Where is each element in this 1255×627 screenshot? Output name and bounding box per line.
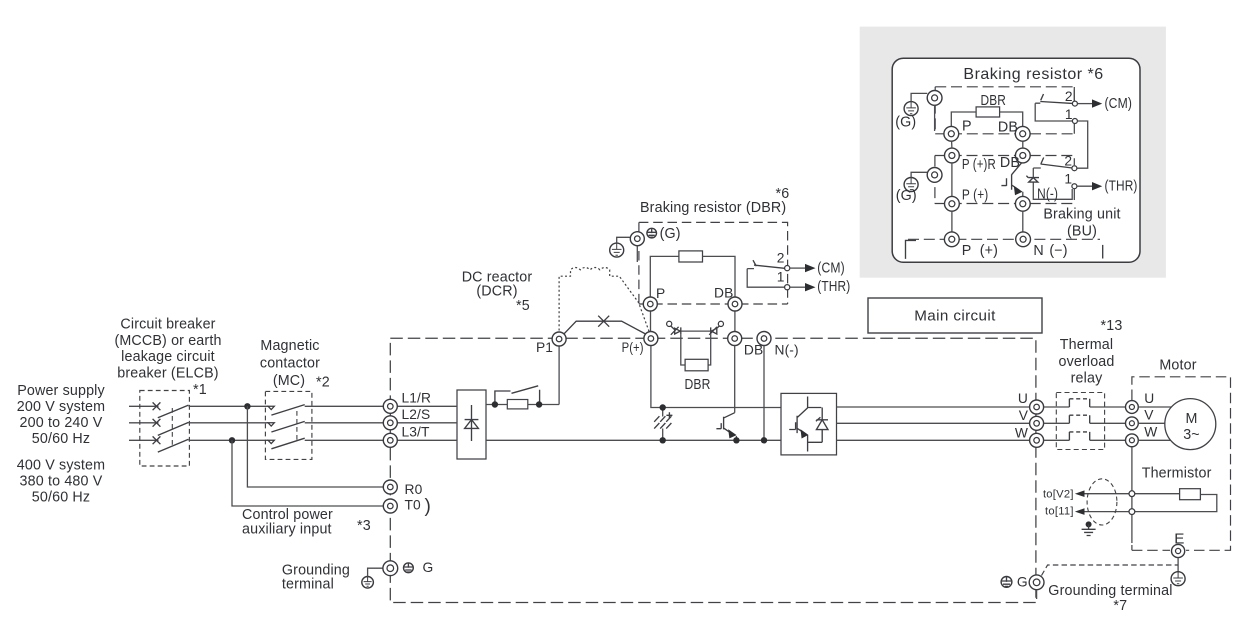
magnetic contactor MC dashed box [265,391,312,459]
wire: rectifier DC+ out to P1 riser [486,346,559,405]
screw symbol left G [404,563,414,573]
smoothing capacitor leads [662,408,664,441]
terminal DB upper [728,297,742,311]
text: U V W inverter side [1015,391,1029,440]
wire: P(+)R to P(+) vertical [951,163,953,197]
wire: E to earth [1177,558,1179,572]
svg-text:(CM): (CM) [817,261,845,277]
terminal G right [1029,575,1044,590]
svg-text:to[V2]: to[V2] [1043,488,1074,500]
breaker pole X contact 1 [153,402,161,410]
svg-text:(THR): (THR) [1105,179,1138,195]
terminal L2/S [383,416,397,430]
terminal L3/T [383,433,397,447]
wire: line3 MCCB to MC [189,439,269,441]
arrow to V2 [1075,490,1085,497]
junction dot right of charging resistor [536,401,542,407]
capacitor plus mark [666,412,672,418]
terminal DB lower [728,332,742,346]
inset DBR resistor [976,107,1000,117]
breaker pole X contact 3 [153,436,161,444]
text: circuit breaker label [114,317,221,398]
wire: control aux drop from line3 [232,440,384,506]
breaker pole X contact 2 [153,419,161,427]
inset terminal DB lower [1015,148,1030,163]
inset lower dashed box [935,156,1074,204]
svg-text:(G): (G) [660,226,681,242]
junction dot line3 [229,437,235,443]
junction dot N(-) bus [761,437,767,443]
svg-text:*6: *6 [776,186,790,202]
junction dot left of charging resistor [492,401,498,407]
svg-text:2: 2 [1065,89,1073,104]
svg-text:L2/S: L2/S [402,407,431,422]
svg-text:(THR): (THR) [817,279,850,295]
inset terminal P(+) [945,196,960,211]
svg-text:Power supply: Power supply [17,383,105,399]
svg-text:Thermistor: Thermistor [1142,465,1212,481]
wire: P(+) riser down to DC bus [651,346,781,408]
DBR lower resistor [685,359,708,371]
svg-text:DBR: DBR [685,377,711,393]
wire: phase feed line 3 [129,439,159,441]
brake IGBT emitter arrow [728,429,736,438]
svg-text:Control power: Control power [242,507,333,523]
svg-text:relay: relay [1071,370,1103,386]
thermal contact blade in DBR box [753,260,785,268]
chopper jumper right symbol [709,326,719,335]
dashed ground link G to E [1042,565,1179,576]
svg-text:M: M [1185,411,1197,427]
MC fixed contact wedge 2 [268,423,274,426]
svg-text:V: V [1019,408,1029,423]
svg-text:Braking unit: Braking unit [1043,206,1120,222]
svg-text:W: W [1144,425,1157,440]
junction circle 11 [1129,509,1135,515]
inverter freewheel diode [816,408,828,443]
wire to THR arrow [790,286,806,288]
svg-text:DB: DB [998,119,1018,135]
svg-text:R0: R0 [405,482,423,497]
svg-text:*2: *2 [316,375,330,391]
arrow to (THR) inset [1092,182,1102,190]
relay heater V [1069,415,1089,423]
jumper P1 to P(+) [564,321,647,334]
wire: motor U lead [1138,406,1172,408]
relay heater W [1069,432,1089,440]
inset terminal P(+)R [945,148,960,163]
MC fixed contact wedge 3 [268,440,274,443]
svg-text:G: G [1017,575,1028,590]
svg-text:Braking resistor *6: Braking resistor *6 [963,66,1103,83]
junction dot capacitor top [660,404,666,410]
svg-text:N: N [1033,243,1043,259]
inverter box [781,393,837,455]
inverter IGBT [789,397,822,452]
wire: earth to G terminal DBR [617,237,631,243]
terminal G left [383,561,398,576]
wire: DB lower down to brake IGBT [734,346,736,413]
terminal L1/R [383,399,397,413]
wire: inverter U output [837,406,1031,408]
main circuit label box [868,298,1042,333]
wire: G upper stub down [934,105,936,131]
svg-text:T0: T0 [405,497,422,512]
svg-text:breaker (ELCB): breaker (ELCB) [117,366,218,382]
svg-text:V: V [1144,407,1154,422]
svg-text:P1: P1 [536,340,553,355]
svg-text:DB: DB [744,343,763,358]
svg-text:P(+): P(+) [622,340,644,355]
svg-text:(MC): (MC) [273,373,305,389]
inset terminal DB upper [1015,126,1030,141]
svg-text:Magnetic: Magnetic [260,338,319,354]
junction dot capacitor bottom [660,437,666,443]
inset terminal P bottom [944,232,959,247]
rectifier box [457,390,486,459]
screw symbol DBR G [647,228,657,238]
motor circle [1165,399,1216,450]
terminal G of DBR [630,232,644,246]
svg-text:380 to 480 V: 380 to 480 V [20,474,103,490]
svg-text:200 to 240 V: 200 to 240 V [20,415,103,431]
text: grounding terminal left [282,562,350,592]
circuit breaker MCCB dashed box [140,391,190,467]
text: thermal overload relay [1058,337,1114,386]
terminal W [1030,433,1044,447]
wire: motor V lead [1138,422,1165,424]
screw symbol right G [1001,577,1012,588]
svg-text:(−): (−) [1049,243,1067,259]
text: R0 T0 labels [405,482,431,517]
arrow to 11 [1075,508,1085,515]
bypass contact over charging resistor [495,386,540,403]
svg-text:): ) [425,496,431,517]
svg-text:Grounding terminal: Grounding terminal [1048,583,1172,599]
breaker blade 2 [158,422,189,435]
charging resistor [507,400,528,409]
wire: U through relay [1044,406,1126,408]
inset terminal N bottom [1016,232,1031,247]
motor terminal W [1126,434,1139,447]
motor terminal U [1126,401,1139,414]
svg-text:*7: *7 [1113,598,1127,614]
breaker blade 1 [158,405,189,418]
shield ellipse dashed [1087,479,1117,525]
inset IGBT collector from DB [1012,163,1022,175]
thermistor element [1180,489,1201,500]
wire: earth to G terminal upper inset [911,93,927,101]
inset top contact blade [1040,94,1072,103]
svg-text:(G): (G) [896,188,917,204]
inset gray panel [860,27,1166,278]
svg-text:2: 2 [777,250,785,265]
svg-text:Braking resistor (DBR): Braking resistor (DBR) [640,200,786,216]
text: P(+)R and DB labels [962,155,1020,173]
svg-text:U: U [1144,391,1154,406]
smoothing capacitor plates [654,416,671,428]
breaker linkage dashed [171,408,173,447]
inset top contact L-wire [1035,103,1072,121]
terminal E [1172,544,1185,557]
svg-text:(G): (G) [895,115,916,131]
text: 2 1 labels lower [1064,153,1072,186]
wire: inverter V output [837,422,1031,424]
svg-text:terminal: terminal [282,577,334,593]
wire: G terminal stub down [636,246,638,262]
text: U V W motor side [1144,391,1157,440]
terminal P1 [552,332,566,346]
svg-text:50/60 Hz: 50/60 Hz [32,431,90,447]
svg-text:1: 1 [1064,172,1072,187]
wire: N(-) riser [763,346,765,441]
inset lower contact L-wire with zener [1033,168,1072,199]
svg-text:Thermal: Thermal [1060,337,1113,353]
svg-text:to[11]: to[11] [1045,506,1074,518]
X mark on jumper [598,316,609,327]
wire: thermistor lower loop [1084,495,1217,512]
svg-text:1: 1 [1065,107,1073,122]
wire: chopper jumper link [681,330,711,332]
inset contact point 1 lower [1072,184,1077,189]
motor terminal V [1126,417,1139,430]
wire: line1 MCCB to MC [189,405,269,407]
inset IGBT emitter arrow [1014,186,1023,195]
junction dot shield ground [1086,521,1092,527]
svg-text:P: P [656,286,665,301]
svg-text:P: P [962,118,972,134]
wire: motor W lead [1138,439,1172,441]
wire: line3 MC to terminal L3/T [305,439,384,441]
wire: DBR left lead to P [650,256,679,297]
inset lower contact blade [1041,158,1073,169]
svg-text:*1: *1 [193,382,207,398]
chopper jumper left circle [667,321,672,326]
inset terminal G upper [927,91,942,106]
wire: DBR lower left lead [681,335,685,365]
contact point 1 [785,285,790,290]
text: P (+) N (-) bottom labels [962,243,1068,259]
svg-text:contactor: contactor [260,356,320,372]
wire: DC negative bus rectifier to inverter [486,439,781,441]
text: 2 and 1 contact labels [777,250,785,284]
svg-text:G: G [423,560,434,575]
wire: P to P(+)R vertical [951,141,953,148]
braking resistor DBR dashed box [639,222,788,304]
junction dot line1 [244,403,250,409]
wire: inset DBR right lead [1000,112,1023,127]
svg-text:W: W [1015,425,1028,440]
inset zener diode [1026,176,1039,182]
inset earth symbol upper [904,102,918,116]
wire: line2 MC to terminal L2/S [305,422,384,424]
text: power supply labels [17,383,106,506]
relay heater U [1069,399,1089,407]
MC blade 1 [271,405,304,416]
wire: inset DBR left lead [951,112,976,127]
wire: control aux drop from line1 [247,406,383,487]
text: L1/R L2/S L3/T labels [402,390,432,439]
svg-text:(BU): (BU) [1067,223,1097,239]
MC blade 2 [271,421,304,432]
svg-text:L3/T: L3/T [402,425,430,440]
inset contact point 2 upper [1072,101,1077,106]
wire: brake IGBT emitter to bus [735,436,737,440]
text: control power auxiliary input [242,507,371,538]
inset contact point 1 upper [1072,119,1077,124]
inset bottom left bracket [906,240,917,259]
inset bottom dashed row [908,238,1100,240]
wire: DB upper to DB lower vertical [734,311,736,332]
wire: P to P(+) vertical [650,311,652,332]
svg-text:200 V system: 200 V system [17,399,105,415]
thermal contact L-wire in DBR box [747,269,784,288]
svg-text:P (+)R: P (+)R [962,157,996,173]
svg-text:P: P [962,243,972,259]
DCR dotted inductor path [559,268,649,332]
text: DC reactor label [462,270,533,314]
wire: thermistor upper line [1084,493,1180,495]
MC linkage dashed [296,411,298,443]
shield ground symbol [1082,524,1096,535]
svg-text:P (+): P (+) [962,187,989,203]
terminal P upper [643,297,657,311]
svg-text:auxiliary input: auxiliary input [242,522,332,538]
wire: DBR right lead to DB [703,256,736,297]
wire: earth to G terminal lower inset [911,172,927,177]
svg-text:U: U [1018,391,1028,406]
inset contact point 2 lower [1072,166,1077,171]
wire: contact1 to lower contact2 interconnect [1077,121,1087,168]
svg-text:400 V system: 400 V system [17,458,105,474]
wire: emitter to N(-) [1022,192,1024,197]
wire: contact 1 to THR arrow [1077,185,1093,187]
earth symbol at left grounding terminal [362,577,374,589]
text: P(+) and N(-) labels inset [962,186,1058,203]
terminal U [1030,400,1044,414]
svg-text:overload: overload [1058,354,1114,370]
wire: G right stub below [1036,590,1038,599]
inset terminal P [944,126,959,141]
svg-text:2: 2 [1064,153,1072,168]
arrow to (CM) inset [1092,99,1102,107]
motor dashed box [1132,377,1231,551]
wire: contact 2 to CM arrow [1077,103,1092,105]
wire: DBR lower right lead [708,335,711,365]
wire to CM arrow [790,267,806,269]
svg-text:DB: DB [714,285,733,300]
braking resistor DBR element [679,251,703,262]
wire: L1 terminal to rectifier [397,405,457,407]
inverter IGBT emitter arrow [801,429,809,438]
main circuit dashed boundary [390,338,1036,602]
inset top dashed box [935,87,1074,134]
svg-text:L1/R: L1/R [402,390,432,405]
svg-text:50/60 Hz: 50/60 Hz [32,490,90,506]
wire: inverter W output [837,439,1031,441]
inset terminal N(-) [1015,196,1030,211]
terminal P(+) [644,332,658,346]
inset earth symbol lower [904,178,918,192]
text: braking unit (BU) [1043,206,1120,239]
inset bottom right tick [1102,245,1104,259]
svg-text:N(-): N(-) [775,343,799,358]
svg-text:*13: *13 [1101,318,1123,334]
svg-text:(DCR): (DCR) [476,284,517,300]
wire: DB to DB lower vertical [1022,141,1024,148]
svg-text:leakage circuit: leakage circuit [121,349,215,365]
MC blade 3 [271,438,304,449]
MC fixed contact wedge 1 [268,406,274,409]
chopper jumper left symbol [671,326,681,335]
junction dot brake emitter [733,437,739,443]
wire: feed to contact 2 upper [1073,87,1075,101]
wire: W through relay [1044,439,1126,441]
terminal R0 [383,480,397,494]
terminal N(-) [757,332,771,346]
wire: line2 MCCB to MC [189,422,269,424]
svg-text:(+): (+) [980,243,998,259]
text: P and DB labels inset top [962,118,1018,135]
svg-text:Circuit breaker: Circuit breaker [120,317,215,333]
svg-text:(MCCB) or earth: (MCCB) or earth [114,333,221,349]
svg-text:(CM): (CM) [1105,96,1133,112]
earth symbol below E [1171,572,1185,586]
text: M 3~ [1183,411,1200,443]
svg-text:N(-): N(-) [1037,186,1058,202]
wire: phase feed line 2 [129,422,159,424]
terminal V [1030,416,1044,430]
wire: L3 terminal to rectifier [397,439,457,441]
wire: motor W terminal down to thermistor [1131,447,1133,543]
wire: phase feed line 1 [129,405,159,407]
svg-text:Main circuit: Main circuit [914,308,996,325]
text: 2 1 labels upper [1065,89,1073,122]
text: magnetic contactor label [260,338,330,391]
svg-text:*3: *3 [357,518,371,534]
svg-text:3~: 3~ [1183,427,1200,443]
svg-text:*5: *5 [516,298,530,314]
inset terminal G lower [927,168,942,183]
terminal T0 [383,499,397,513]
wire: earth to G terminal left [368,568,384,576]
brake IGBT [716,413,734,436]
svg-text:Motor: Motor [1159,358,1196,374]
inset white rounded box [892,58,1140,262]
wire: N(-) to N bottom vertical [1022,211,1024,232]
wire: P(+) to P bottom vertical [951,211,953,232]
rectifier diode symbol [465,405,479,441]
earth symbol in DBR box [610,243,624,257]
wire: line1 MC to terminal L1/R [305,405,384,407]
arrow to (CM) [805,264,816,272]
wire: L2 terminal to rectifier [397,422,457,424]
junction circle V2 [1129,491,1135,497]
wire: V through relay [1044,422,1126,424]
contact point 2 [785,266,790,271]
inset IGBT [1001,174,1019,190]
arrow to (THR) [805,283,816,291]
breaker blade 3 [158,439,189,452]
chopper jumper right circle [718,321,723,326]
svg-text:1: 1 [777,270,785,285]
thermal relay dashed box [1056,393,1104,450]
